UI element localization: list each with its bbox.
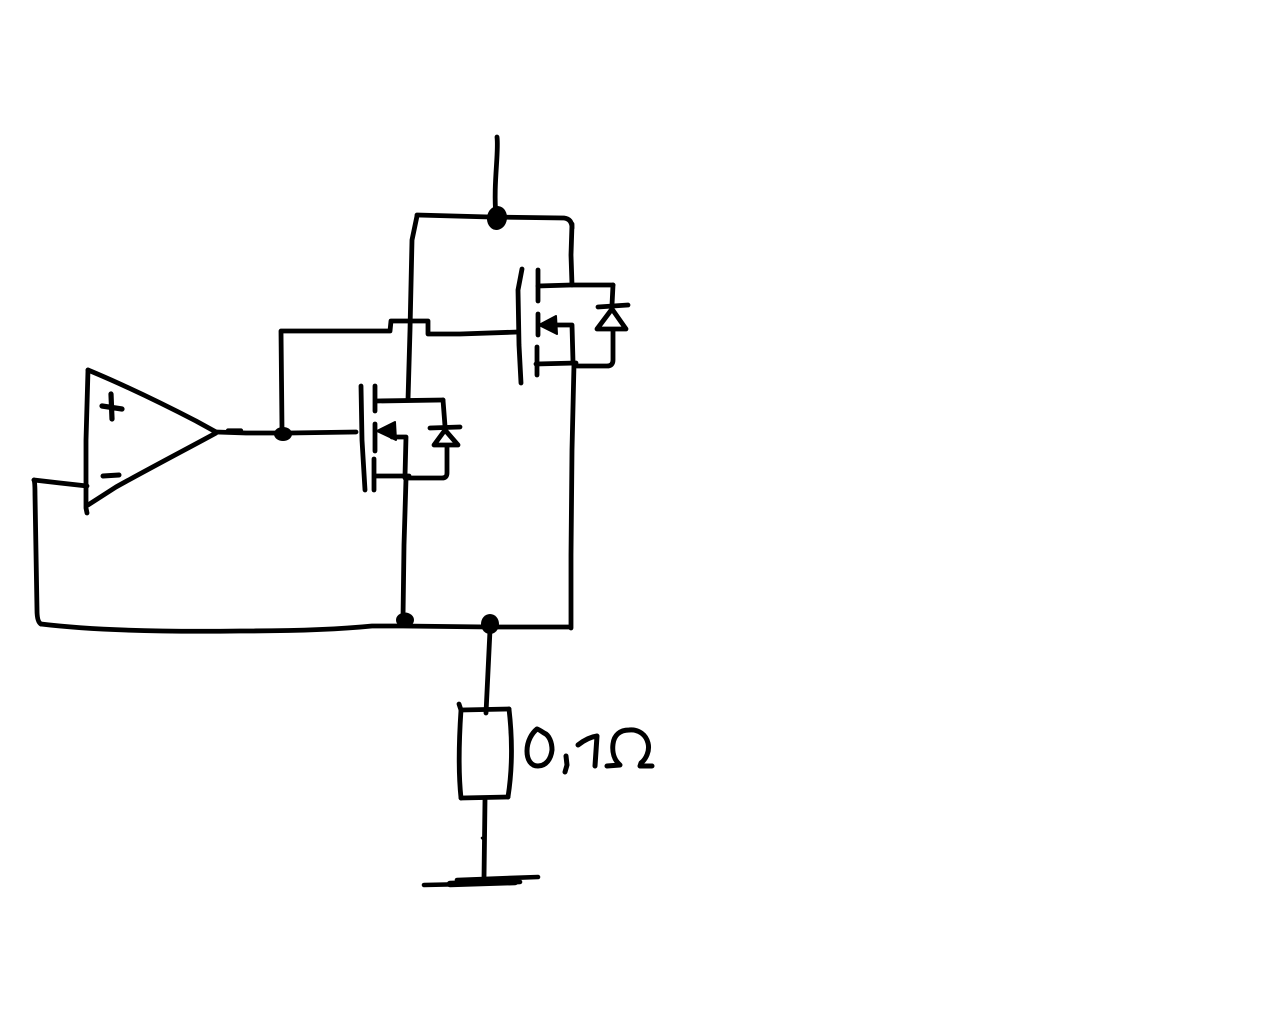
node Q1 source junction [396, 613, 414, 628]
op-amp U1 [86, 370, 216, 513]
wire bottom rail [41, 624, 570, 631]
resistor R1 [459, 704, 512, 798]
transistor Q1 [361, 386, 443, 490]
wire shunt top [486, 630, 490, 713]
wire feedback left [34, 480, 41, 624]
ground [424, 877, 538, 885]
wire rail to Q2 drain [571, 224, 572, 285]
diode D2 (body diode) [577, 285, 628, 366]
wire top rail [417, 215, 572, 228]
wire rail to Q1 drain [408, 216, 417, 400]
wire U1 output to Q2 gate [281, 321, 518, 429]
label 0,1 ohm value of R1 [527, 729, 652, 772]
wire U1 output [216, 432, 284, 433]
wire Q1 source down [403, 479, 406, 618]
diode D1 (body diode) [405, 400, 460, 478]
wire U1 inverting input [34, 480, 87, 486]
transistor Q2 [518, 269, 613, 383]
wire Q1 gate lead [290, 432, 356, 433]
wire shunt to ground [484, 800, 485, 878]
wire supply input [495, 137, 497, 216]
wire Q2 source down [571, 364, 574, 628]
node shunt tap junction [481, 614, 499, 634]
node supply junction [485, 205, 508, 232]
node U1 output junction [274, 427, 292, 441]
